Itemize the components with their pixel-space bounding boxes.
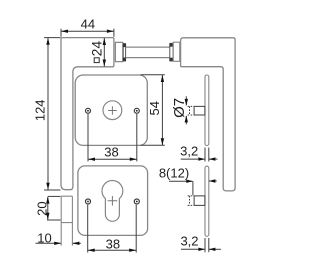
svg-text:38: 38 bbox=[106, 236, 120, 251]
svg-text:54: 54 bbox=[147, 101, 162, 115]
handle neck flange (top view) bbox=[115, 42, 122, 61]
dimension 10 leader bbox=[36, 242, 61, 244]
bearing ring right bbox=[170, 43, 173, 61]
euro profile cylinder hole bbox=[102, 181, 123, 222]
fixing pin 2 bbox=[194, 196, 205, 206]
dimension 44 bbox=[61, 29, 114, 37]
svg-text:3,2: 3,2 bbox=[180, 144, 198, 159]
dimension 38 bottom bbox=[88, 205, 137, 253]
rose 1 side view strip bbox=[205, 75, 209, 146]
svg-text:20: 20 bbox=[34, 201, 49, 215]
svg-text:8(12): 8(12) bbox=[159, 165, 189, 180]
dimension 20 bbox=[47, 196, 61, 220]
screw hole rose2 right bbox=[134, 199, 139, 204]
dimension 38 top bbox=[88, 114, 137, 161]
fixing element below grip bbox=[61, 196, 72, 245]
handle hub circle bbox=[103, 101, 122, 120]
svg-text:24: 24 bbox=[89, 41, 105, 57]
dimension 54 bbox=[141, 75, 165, 146]
fixing pin 1 (Ø7) bbox=[194, 106, 205, 115]
svg-text:Ø7: Ø7 bbox=[171, 98, 188, 118]
svg-text:3,2: 3,2 bbox=[180, 233, 198, 248]
rose 2 side view strip bbox=[205, 166, 209, 236]
svg-text:124: 124 bbox=[33, 99, 48, 121]
dimension 3,2 bottom bbox=[181, 238, 221, 252]
dimension 8(12) leader bbox=[169, 181, 217, 195]
svg-text:44: 44 bbox=[81, 17, 95, 32]
handle top-view outline bbox=[61, 38, 114, 190]
bearing ring left bbox=[123, 44, 125, 61]
spindle tube bbox=[126, 46, 170, 48]
svg-text:10: 10 bbox=[37, 231, 51, 246]
dimension square 24 bbox=[103, 38, 105, 67]
screw hole rose2 left bbox=[86, 199, 91, 204]
neck collar (side view) bbox=[173, 42, 180, 61]
hub cross mark bbox=[108, 106, 117, 115]
screw hole rose1 left bbox=[86, 108, 91, 113]
screw hole rose1 right bbox=[134, 108, 139, 113]
dimension diameter 7 bbox=[185, 96, 187, 124]
cylinder cross mark bbox=[108, 196, 118, 206]
svg-text:38: 38 bbox=[104, 144, 118, 159]
dimension 124 bbox=[44, 38, 61, 190]
rose 2 front view bbox=[78, 166, 148, 236]
lever handle side-view outline bbox=[181, 38, 236, 191]
dimension 3,2 top bbox=[181, 148, 218, 162]
rose 1 front view bbox=[75, 75, 147, 145]
